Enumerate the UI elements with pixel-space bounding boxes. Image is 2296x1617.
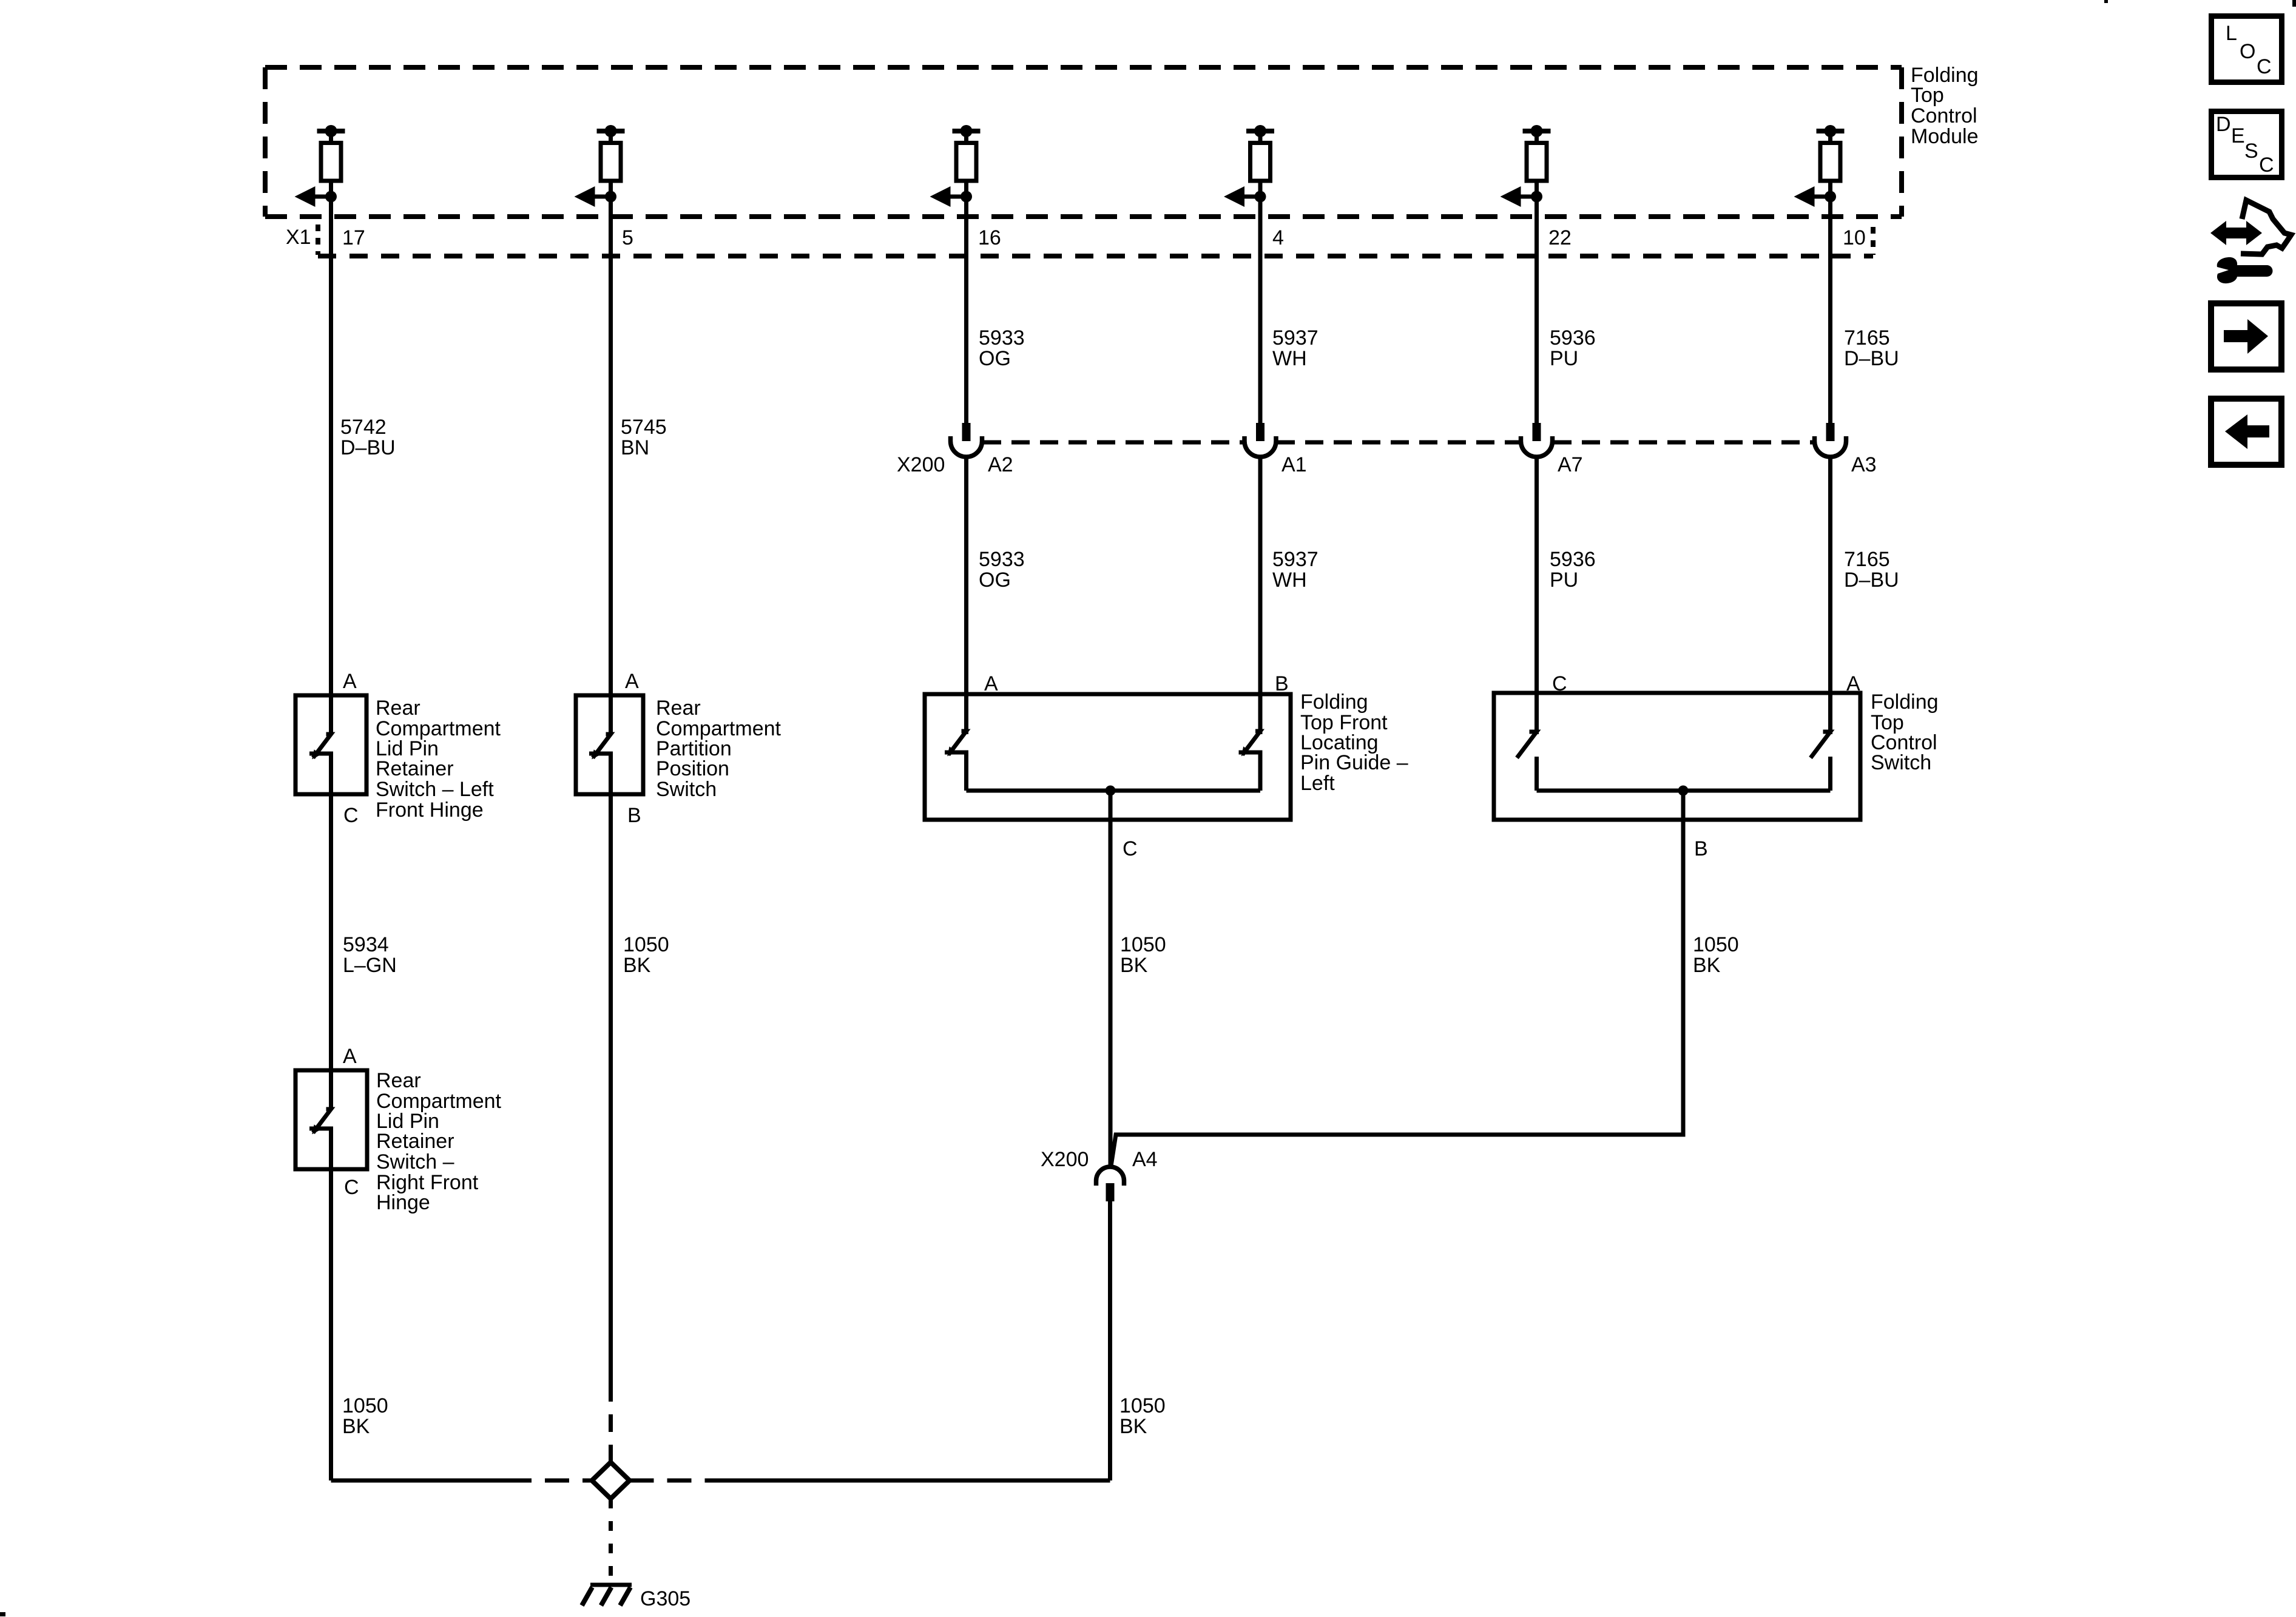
svg-text:1050: 1050 <box>1120 933 1166 956</box>
wire label 1050 BK (bottom left) <box>342 1394 388 1438</box>
switch S4 name label <box>1871 690 1939 774</box>
wire below X200 A7 <box>1535 455 1539 734</box>
scan speck bottom-left <box>0 1612 5 1616</box>
connector X200 terminal A1 <box>1244 423 1276 457</box>
svg-text:S: S <box>2244 140 2258 163</box>
wire label 5745 BN <box>621 416 667 459</box>
svg-text:5933: 5933 <box>979 326 1025 349</box>
switch S4 Folding Top Control Switch <box>1494 693 1860 820</box>
icon DESC box <box>2212 112 2282 178</box>
icon back arrow box <box>2211 399 2281 465</box>
svg-text:1050: 1050 <box>342 1394 388 1417</box>
ground rail wire (right solid segment) <box>728 1479 1110 1483</box>
svg-text:B: B <box>627 804 641 827</box>
svg-text:Hinge: Hinge <box>376 1191 430 1214</box>
svg-text:Retainer: Retainer <box>376 757 454 780</box>
svg-text:Left: Left <box>1300 772 1335 795</box>
svg-text:5933: 5933 <box>979 548 1025 571</box>
wire 1050 BK from S5 terminal C down to ground rail <box>329 1129 333 1480</box>
wire label 5937 WH (below X200) <box>1272 548 1319 592</box>
svg-text:Front Hinge: Front Hinge <box>376 798 484 822</box>
svg-text:A: A <box>984 672 998 695</box>
ground rail wire (left solid segment) <box>331 1479 508 1483</box>
svg-text:C: C <box>344 1176 359 1199</box>
svg-text:PU: PU <box>1550 347 1578 370</box>
svg-text:Control: Control <box>1911 104 1977 127</box>
svg-text:7165: 7165 <box>1844 548 1890 571</box>
wire label 5933 OG (below X200) <box>979 548 1025 592</box>
svg-text:5: 5 <box>622 226 633 249</box>
wire 1050 BK from S4 terminal B down and left to connector X200 A4 <box>1111 791 1684 1168</box>
svg-text:17: 17 <box>342 226 365 249</box>
wire label 7165 D–BU (below X200) <box>1844 548 1899 592</box>
module pin 17 with internal connection and left arrow <box>295 125 345 207</box>
connector X1 dotted band <box>318 254 1873 258</box>
svg-text:X200: X200 <box>1041 1148 1089 1171</box>
module pin 4 with internal connection and left arrow <box>1224 125 1274 207</box>
wire label 5934 L-GN <box>343 933 397 977</box>
svg-text:OG: OG <box>979 569 1011 592</box>
wire 1050 BK from S2 terminal B down (solid then dashed) to splice <box>609 754 613 1384</box>
svg-text:C: C <box>1552 672 1567 695</box>
svg-text:WH: WH <box>1272 347 1307 370</box>
svg-text:BK: BK <box>1693 954 1721 977</box>
svg-text:5937: 5937 <box>1272 326 1319 349</box>
wire 1050 BK from S3 terminal C down to connector X200 A4 <box>1109 791 1113 1168</box>
wire label 5936 PU (above X200) <box>1550 326 1596 370</box>
svg-text:Switch –: Switch – <box>376 1150 454 1173</box>
wire 5934 L-GN from S1 terminal C down to S5 terminal A <box>329 754 333 1109</box>
ground G305 symbol <box>582 1585 632 1605</box>
svg-text:A: A <box>625 670 639 693</box>
switch S2 Rear Compartment Partition Position Switch <box>576 695 643 794</box>
svg-text:C: C <box>2259 154 2274 177</box>
svg-text:5934: 5934 <box>343 933 389 956</box>
svg-text:C: C <box>2257 55 2272 78</box>
svg-text:A: A <box>1846 672 1860 695</box>
svg-text:E: E <box>2231 124 2245 147</box>
svg-text:Retainer: Retainer <box>376 1130 454 1153</box>
module pin 16 with internal connection and left arrow <box>930 125 981 207</box>
svg-text:L–GN: L–GN <box>343 954 397 977</box>
wire from module pin down to X200 connector at x=1592.5 <box>964 197 968 423</box>
switch S3 name label <box>1300 690 1408 795</box>
wire from module pin down to X200 connector at x=2077.0 <box>1258 197 1263 423</box>
scan speck top-middle-right <box>2104 0 2108 3</box>
svg-text:A1: A1 <box>1281 453 1307 476</box>
switch S3 Folding Top Front Locating Pin Guide - Left <box>925 694 1291 820</box>
wire from module pin down to X200 connector at x=3016.5 <box>1828 197 1832 423</box>
svg-text:A: A <box>343 1045 357 1068</box>
wire below X200 A2 <box>964 455 968 734</box>
svg-text:BK: BK <box>623 954 651 977</box>
wire label 7165 D–BU (above X200) <box>1844 326 1899 370</box>
icon LOC box <box>2212 16 2282 83</box>
switch S5 Rear Compartment Lid Pin Retainer Switch - Right Front Hinge <box>295 1070 367 1169</box>
svg-text:Pin Guide –: Pin Guide – <box>1300 751 1408 774</box>
wire label 1050 BK (on S4 ground wire) <box>1693 933 1739 977</box>
module pin 22 with internal connection and left arrow <box>1501 125 1551 207</box>
svg-text:22: 22 <box>1548 226 1572 249</box>
wire label 1050 BK (on S3 ground wire) <box>1120 933 1166 977</box>
ground rail wire (dashed out of splice to right) <box>630 1479 729 1483</box>
svg-text:A: A <box>343 670 357 693</box>
wire from pin 17 down to switch S1 terminal A <box>329 197 333 734</box>
svg-text:10: 10 <box>1843 226 1866 249</box>
svg-text:B: B <box>1694 837 1708 860</box>
svg-text:5936: 5936 <box>1550 326 1596 349</box>
svg-text:BN: BN <box>621 436 649 459</box>
svg-text:X1: X1 <box>286 226 311 249</box>
wire below X200 A3 <box>1828 455 1832 734</box>
svg-text:D–BU: D–BU <box>1844 347 1899 370</box>
dashed wire from splice down to ground <box>609 1499 613 1583</box>
svg-text:C: C <box>343 804 359 827</box>
svg-text:Folding: Folding <box>1871 690 1939 714</box>
switch S1 Rear Compartment Lid Pin Retainer Switch - Left Front Hinge <box>295 695 366 794</box>
svg-text:A2: A2 <box>988 453 1013 476</box>
svg-text:D–BU: D–BU <box>340 436 396 459</box>
svg-text:1050: 1050 <box>1119 1394 1166 1417</box>
connector X200 terminal A7 <box>1521 423 1553 457</box>
connector X200 terminal A4 <box>1096 1167 1124 1201</box>
scan speck top-right corner <box>2292 0 2296 7</box>
svg-text:X200: X200 <box>897 453 945 476</box>
svg-text:O: O <box>2240 40 2255 63</box>
svg-text:5937: 5937 <box>1272 548 1319 571</box>
svg-text:16: 16 <box>978 226 1001 249</box>
svg-text:L: L <box>2226 22 2237 45</box>
wire label 5936 PU (below X200) <box>1550 548 1596 592</box>
svg-text:D: D <box>2216 113 2231 136</box>
svg-text:Switch: Switch <box>1871 751 1931 774</box>
wire from pin 5 down to switch S2 terminal A <box>609 197 613 734</box>
svg-text:OG: OG <box>979 347 1011 370</box>
svg-text:Rear: Rear <box>656 697 701 720</box>
wire from module pin down to X200 connector at x=2532.5 <box>1535 197 1539 423</box>
svg-text:C: C <box>1123 837 1138 860</box>
svg-text:4: 4 <box>1272 226 1284 249</box>
icon harness connector repair (double arrow, connector outline, wrench) <box>2210 200 2291 283</box>
splice diamond on ground wire <box>592 1462 630 1499</box>
svg-text:Module: Module <box>1911 125 1979 148</box>
module pin 5 with internal connection and left arrow <box>575 125 625 207</box>
wire label 5937 WH (above X200) <box>1272 326 1319 370</box>
wire label 5933 OG (above X200) <box>979 326 1025 370</box>
svg-text:Top: Top <box>1911 84 1944 107</box>
switch S1 name label <box>376 697 501 822</box>
wire label 1050 BK (on S2 ground wire) <box>623 933 669 977</box>
svg-text:Rear: Rear <box>376 1069 421 1092</box>
wire label 5742 D-BU <box>340 416 396 459</box>
svg-text:BK: BK <box>1120 954 1148 977</box>
svg-text:1050: 1050 <box>1693 933 1739 956</box>
ground rail wire (dashed into splice from left) <box>507 1479 592 1483</box>
svg-text:A7: A7 <box>1558 453 1583 476</box>
svg-text:7165: 7165 <box>1844 326 1890 349</box>
wire below X200 A1 <box>1258 455 1263 734</box>
svg-text:BK: BK <box>342 1415 370 1438</box>
switch S5 name label <box>376 1069 502 1214</box>
svg-text:5745: 5745 <box>621 416 667 439</box>
svg-text:Rear: Rear <box>376 697 420 720</box>
svg-text:Position: Position <box>656 757 729 780</box>
svg-text:G305: G305 <box>640 1587 690 1610</box>
svg-text:D–BU: D–BU <box>1844 569 1899 592</box>
svg-text:5936: 5936 <box>1550 548 1596 571</box>
module U1 name label <box>1911 64 1979 148</box>
svg-text:Folding: Folding <box>1300 690 1368 714</box>
svg-text:A3: A3 <box>1851 453 1877 476</box>
module U1 Folding Top Control Module dashed outline <box>265 67 1902 217</box>
X200 harness dashed linking line <box>983 441 1814 445</box>
svg-text:A4: A4 <box>1132 1148 1158 1171</box>
svg-text:1050: 1050 <box>623 933 669 956</box>
svg-text:Switch: Switch <box>656 778 717 801</box>
module pin 10 with internal connection and left arrow <box>1794 125 1845 207</box>
svg-text:WH: WH <box>1272 569 1307 592</box>
switch S2 name label <box>656 697 782 801</box>
svg-text:5742: 5742 <box>340 416 387 439</box>
svg-text:B: B <box>1275 672 1289 695</box>
wire label 1050 BK (below A4) <box>1119 1394 1166 1438</box>
connector X200 terminal A3 <box>1815 423 1846 457</box>
svg-text:PU: PU <box>1550 569 1578 592</box>
icon forward arrow box <box>2211 303 2281 370</box>
connector X200 terminal A2 <box>951 423 982 457</box>
svg-text:BK: BK <box>1119 1415 1147 1438</box>
wire below X200 A4 down to ground rail <box>1108 1201 1112 1480</box>
svg-text:Switch – Left: Switch – Left <box>376 778 494 801</box>
